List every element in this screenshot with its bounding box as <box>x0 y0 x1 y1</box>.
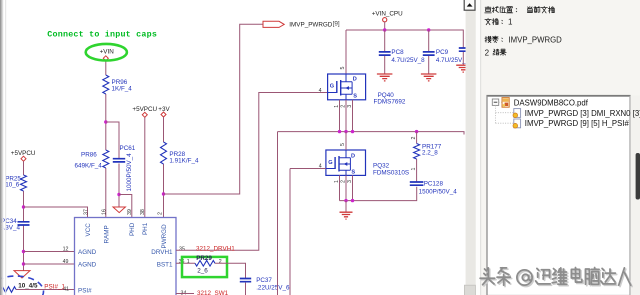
svg-text:1: 1 <box>334 180 340 183</box>
wire DRVL to PQ32 gate <box>290 169 326 295</box>
wire ground stub PQ32 <box>345 201 347 212</box>
svg-text:38: 38 <box>140 209 146 215</box>
wire BST1 to PR29 <box>176 262 195 264</box>
wire +VIN_CPU bus <box>346 22 463 74</box>
resistor on PSI# line (partial) <box>0 287 16 293</box>
svg-text:AGND: AGND <box>78 262 97 269</box>
blue dashed annotation ellipse <box>0 276 44 295</box>
net flag IMVP_PWRGD <box>263 21 284 27</box>
transistor PQ32 <box>326 150 366 175</box>
svg-text:2: 2 <box>341 180 347 183</box>
svg-text:3212_SW1: 3212_SW1 <box>197 290 229 295</box>
svg-text:D: D <box>353 77 357 83</box>
ground left rail <box>14 271 30 278</box>
wire PQ32 drain <box>345 132 347 150</box>
svg-text:2: 2 <box>341 105 347 108</box>
svg-text:4.7U/25V_8: 4.7U/25V_8 <box>436 57 470 64</box>
svg-text:3212_DRVH1: 3212_DRVH1 <box>196 246 235 253</box>
node junctions SW bus <box>338 130 341 133</box>
svg-text:1: 1 <box>187 259 190 265</box>
capacitor PC128 <box>410 182 424 185</box>
svg-text:DASW9DMB8CO.pdf: DASW9DMB8CO.pdf <box>514 98 589 107</box>
svg-text:+5VPCU: +5VPCU <box>132 106 157 113</box>
transistor PQ40 <box>328 74 366 100</box>
svg-text:3: 3 <box>347 180 353 183</box>
pdf document icon <box>502 98 509 108</box>
svg-text:34: 34 <box>181 291 187 295</box>
wire DRVH1 to PQ40 gate <box>176 93 328 251</box>
svg-text:VCC: VCC <box>85 223 92 237</box>
svg-text:4: 4 <box>319 88 322 94</box>
svg-text:4.7U/25V_8: 4.7U/25V_8 <box>391 57 425 64</box>
green annotation ellipse around +VIN <box>86 44 127 61</box>
wire +5VPCU left rail <box>23 161 25 270</box>
wire PC9 leg <box>428 30 430 74</box>
wires PQ40 source pins <box>340 100 353 132</box>
svg-text:+3V: +3V <box>158 106 170 113</box>
op-amp/controller IC box <box>75 218 177 295</box>
power flag +VIN <box>103 56 108 61</box>
panel label 搜索： IMVP_PWRGD <box>485 36 491 42</box>
result icon row3 <box>513 119 521 128</box>
resistor PR86 <box>103 150 109 168</box>
svg-text:PC8: PC8 <box>391 49 404 56</box>
svg-text:Connect to input caps: Connect to input caps <box>47 30 157 40</box>
svg-text:IMVP_PWRGD: IMVP_PWRGD <box>289 21 332 28</box>
svg-text:1: 1 <box>508 18 513 27</box>
svg-text:16: 16 <box>102 209 108 215</box>
wire SW1 pin stub <box>176 293 194 295</box>
svg-text:5: 5 <box>340 67 346 70</box>
capacitor PC61 <box>113 159 125 162</box>
svg-text:2: 2 <box>411 137 417 140</box>
svg-text:1K/F_4: 1K/F_4 <box>112 86 133 93</box>
wire branch to PC61 <box>106 122 119 207</box>
node junction AGND2 <box>22 262 25 265</box>
resistor PR29 <box>195 261 215 267</box>
resistor PR28 <box>161 142 167 164</box>
left window edge <box>0 0 2 295</box>
wire PHD branch <box>119 195 132 219</box>
wire +3V to PR28 <box>163 117 165 218</box>
power flag +5VPCU left <box>21 156 26 161</box>
scrollbar down button <box>464 285 475 295</box>
svg-text:BST1: BST1 <box>157 262 173 269</box>
svg-text:PC37: PC37 <box>256 277 272 284</box>
svg-text:3: 3 <box>347 105 353 108</box>
panel background <box>466 0 640 295</box>
svg-text:.22U/25V_6: .22U/25V_6 <box>256 285 290 292</box>
wire PWRGD to flag IMVP_PWRGD <box>164 24 264 194</box>
wire AGND pin12 <box>24 251 75 253</box>
svg-text:PHD: PHD <box>129 222 136 236</box>
ground PQ32 source <box>340 212 353 219</box>
node junction PWRGD net <box>162 192 165 195</box>
svg-text:1: 1 <box>334 105 340 108</box>
power flag +VIN_CPU <box>383 18 387 22</box>
power flag +5VPCU mid <box>142 112 147 117</box>
svg-text:FDMS0310S: FDMS0310S <box>373 169 409 176</box>
svg-text:PR29: PR29 <box>196 255 212 262</box>
svg-text:PWRGD: PWRGD <box>161 224 168 249</box>
svg-text:49: 49 <box>63 259 69 265</box>
ground PC8 <box>377 74 393 81</box>
watermark 头条 @迅维电脑达人 <box>481 269 496 286</box>
svg-text:FDMS7692: FDMS7692 <box>374 99 406 106</box>
svg-text:G: G <box>328 160 332 166</box>
svg-text:5: 5 <box>340 143 346 146</box>
svg-text:37: 37 <box>84 209 90 215</box>
wire PR29 to PC37 <box>215 263 246 295</box>
svg-text:IMVP_PWRGD [9] [5] H_PSI#: IMVP_PWRGD [9] [5] H_PSI# <box>525 119 630 128</box>
svg-text:+VIN_CPU: +VIN_CPU <box>372 10 403 17</box>
tree connector dotted <box>496 102 514 123</box>
resistor PR25 <box>21 175 27 191</box>
node junction VCC branch <box>22 205 25 208</box>
scrollbar up button <box>464 0 475 10</box>
dark overlay scrollbar thumb <box>636 153 640 200</box>
wire PSI# net <box>16 289 75 291</box>
svg-text:10_6: 10_6 <box>5 182 20 189</box>
result icon row2 <box>513 109 521 118</box>
wire AGND pin49 <box>24 263 75 265</box>
capacitor PC37 <box>240 279 251 282</box>
svg-text:2: 2 <box>158 212 164 215</box>
svg-text:PSI#: PSI# <box>78 287 92 294</box>
scrollbar track <box>466 0 476 295</box>
svg-text:1000P/50V_4: 1000P/50V_4 <box>126 153 133 192</box>
svg-text:2: 2 <box>219 259 222 265</box>
results tree box <box>487 96 630 295</box>
svg-text:S: S <box>351 169 355 175</box>
svg-text:AGND: AGND <box>78 249 97 256</box>
svg-text:10_4/5: 10_4/5 <box>18 283 38 290</box>
svg-text:39: 39 <box>127 209 133 215</box>
svg-text:S: S <box>353 94 357 100</box>
panel label 查找位置： 当前文档 <box>485 6 492 12</box>
svg-text:D: D <box>351 153 355 159</box>
box right edge strip <box>631 96 640 295</box>
svg-text:G: G <box>330 84 334 90</box>
svg-text:RAMP: RAMP <box>104 225 111 243</box>
ground partial right edge <box>456 65 470 72</box>
svg-text:IMVP_PWRGD [3] DMI_RXN0 [3]: IMVP_PWRGD [3] DMI_RXN0 [3] <box>525 109 640 118</box>
wire to VCC pin <box>24 207 88 218</box>
svg-text:1: 1 <box>411 168 417 171</box>
wire PC8 leg <box>384 30 386 74</box>
capacitor PC9 <box>423 52 435 55</box>
ground under PC61 <box>113 207 125 213</box>
node junction PC8 <box>383 28 386 31</box>
wire SW phase bus <box>278 132 465 295</box>
capacitor partial at right edge <box>459 48 468 51</box>
svg-text:4: 4 <box>319 164 322 170</box>
resistor PR177 <box>416 132 418 182</box>
svg-text:PC61: PC61 <box>120 145 136 152</box>
node junction PC9 <box>427 28 430 31</box>
svg-text:2.2_8: 2.2_8 <box>422 150 438 157</box>
svg-text:41: 41 <box>63 286 69 292</box>
node junction +VIN/PR86/PC61 <box>104 120 107 123</box>
svg-text:1500P/50V_4: 1500P/50V_4 <box>419 189 458 196</box>
svg-text:DRVH1: DRVH1 <box>151 249 173 256</box>
svg-text:[9]: [9] <box>333 20 340 27</box>
svg-text:+VIN: +VIN <box>100 49 115 56</box>
node junction PC61/PHD/gnd <box>117 193 120 196</box>
power flag +3V <box>161 112 166 117</box>
capacitor PC34 <box>18 222 30 225</box>
node junctions source tie <box>344 199 347 202</box>
svg-text:12: 12 <box>63 247 69 253</box>
tree expander <box>492 99 498 105</box>
green annotation box around PR29 <box>182 257 227 277</box>
capacitor PC8 <box>379 52 391 55</box>
svg-text:PH1: PH1 <box>142 222 149 235</box>
node junction AGND1 <box>22 250 25 253</box>
wire +5VPCU to PH1 <box>144 117 146 218</box>
svg-text:649K/F_4: 649K/F_4 <box>75 163 103 170</box>
wire +VIN column to RAMP <box>105 61 107 218</box>
wire PQ32 source tie <box>340 187 417 201</box>
svg-text:+5VPCU: +5VPCU <box>11 150 36 157</box>
ground PC9 <box>421 74 437 81</box>
panel label 文档： 1 <box>485 18 491 25</box>
resistor PR96 <box>103 75 109 94</box>
wires PQ32 source pins <box>340 175 353 200</box>
svg-text:2_6: 2_6 <box>197 267 208 274</box>
svg-text:PC9: PC9 <box>436 49 449 56</box>
svg-text:PC128: PC128 <box>424 181 444 188</box>
svg-text:IMVP_PWRGD: IMVP_PWRGD <box>509 36 563 45</box>
svg-text:2: 2 <box>485 48 490 57</box>
svg-text:1.91K/F_4: 1.91K/F_4 <box>169 157 199 164</box>
svg-text:35: 35 <box>179 247 185 253</box>
svg-text:PR86: PR86 <box>81 151 97 158</box>
